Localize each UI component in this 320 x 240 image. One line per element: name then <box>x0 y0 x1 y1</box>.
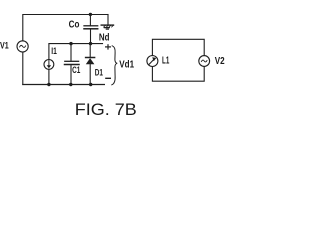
svg-text:Co: Co <box>69 19 80 30</box>
diode D1 <box>86 44 95 85</box>
node junction I1 bottom <box>47 83 50 86</box>
svg-text:L1: L1 <box>162 56 170 67</box>
svg-text:D1: D1 <box>95 67 104 78</box>
wire top horizontal <box>23 15 108 42</box>
terminal plus Vd1 <box>105 44 111 49</box>
node junction D1 bottom <box>89 83 92 86</box>
voltage source V2 <box>199 56 210 67</box>
terminal minus Vd1 <box>106 77 110 79</box>
wire bottom horizontal <box>23 84 105 86</box>
svg-text:V2: V2 <box>215 56 225 67</box>
svg-text:C1: C1 <box>72 65 81 76</box>
brace Vd1 <box>112 46 117 85</box>
right loop bottom wire <box>152 67 204 82</box>
voltage source V1 <box>17 41 28 52</box>
ground Nd symbol <box>101 25 113 29</box>
wire ground lead <box>107 15 109 25</box>
svg-text:Nd: Nd <box>99 33 110 44</box>
svg-text:Vd1: Vd1 <box>119 60 134 71</box>
lamp L1 <box>147 56 158 67</box>
current source I1 <box>44 60 54 70</box>
right loop top wire <box>152 39 204 55</box>
node junction D1 top <box>89 42 92 45</box>
capacitor C1 <box>65 44 80 85</box>
capacitor Co <box>84 14 98 43</box>
svg-text:FIG. 7B: FIG. 7B <box>75 100 137 119</box>
svg-text:I1: I1 <box>51 46 57 56</box>
node junction C1 top <box>69 42 72 45</box>
svg-text:V1: V1 <box>0 41 9 52</box>
wire V1 bottom lead <box>22 52 24 85</box>
node junction C1 bottom <box>69 83 72 86</box>
wire inner top horizontal <box>49 44 103 85</box>
node junction Co top <box>89 13 92 16</box>
